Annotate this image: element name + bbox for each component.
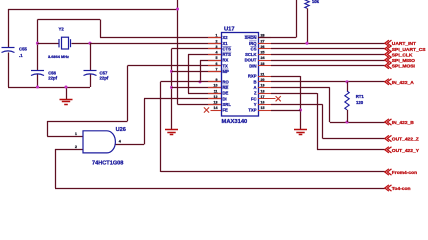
overbars on active-low pin names [223, 46, 232, 48]
wire RXP ground vertical [300, 76, 302, 129]
node MP junction [170, 70, 173, 73]
svg-text:To4-con: To4-con [392, 186, 411, 192]
wire DE row [188, 93, 221, 95]
svg-text:27: 27 [261, 39, 265, 43]
wire B row [271, 87, 330, 89]
wire CTS row [172, 48, 222, 50]
no-connect FC pin17 [276, 96, 281, 101]
node RE junction [170, 86, 173, 89]
svg-text:DIN: DIN [249, 63, 256, 68]
wire C57 bottom lead [90, 75, 92, 88]
svg-text:FE: FE [223, 108, 229, 113]
wire To4-con rail [55, 188, 385, 190]
connector SPI_MOSI [385, 63, 392, 69]
wire C55 bottom lead [8, 53, 10, 88]
node crystal left junction [36, 42, 39, 45]
wire CS to SPI_UART_CS [271, 48, 385, 50]
node ground stub junction [64, 85, 67, 88]
wire RX row [200, 60, 221, 62]
svg-text:TX: TX [223, 63, 229, 68]
wire RT1 top lead [347, 82, 349, 91]
wire B drop [329, 87, 331, 122]
connector SPI_UART_CS [385, 46, 392, 52]
svg-text:22pf: 22pf [100, 76, 109, 81]
wire crystal left lead [38, 43, 60, 45]
svg-text:B: B [253, 79, 256, 84]
connector IN_422_B [385, 119, 392, 125]
wire gate input2 [55, 149, 83, 151]
svg-text:3.6864 MHz: 3.6864 MHz [48, 54, 69, 59]
pin stub FE [211, 110, 222, 112]
wire A row to IN_422_A [271, 81, 385, 83]
svg-text:RE: RE [223, 85, 229, 90]
wire RE row [172, 87, 222, 89]
ground U17 right [294, 130, 307, 135]
wire RO row [161, 81, 222, 83]
svg-text:RX: RX [223, 58, 229, 63]
wire TX drop [127, 66, 129, 121]
pin stubs U17 left [208, 37, 221, 39]
crystal Y2 [59, 37, 71, 49]
resistor RT1 120 [345, 91, 349, 110]
wire Y row [271, 104, 323, 106]
AND gate U26 74HCT1G08 [83, 131, 115, 153]
wire Z drop [317, 93, 319, 150]
wire RO drop [160, 82, 162, 172]
wire IN_422_B row [330, 122, 385, 124]
connector IN_422_A [385, 79, 392, 85]
svg-text:OUT_422_Z: OUT_422_Z [392, 137, 419, 143]
wire crystal right lead [72, 43, 91, 45]
wire MP row [172, 71, 222, 73]
svg-text:C57: C57 [100, 70, 108, 75]
svg-text:U26: U26 [116, 127, 126, 133]
wire ground stub [66, 87, 68, 99]
wire oscillator ground rail [8, 87, 90, 89]
svg-text:SCLK: SCLK [245, 52, 256, 57]
wire C55 top lead [8, 9, 10, 48]
wire RTS-DE vertical [188, 54, 190, 93]
svg-text:MP: MP [223, 69, 229, 74]
wire SCLK to SPI_CLK [271, 54, 385, 56]
node RT1 bottom junction [345, 120, 348, 123]
connector UART_INT [385, 40, 392, 46]
wire DI row [144, 98, 221, 100]
svg-text:X1: X1 [223, 41, 229, 46]
wire RTS row [188, 54, 221, 56]
svg-text:SPI_UART_CS: SPI_UART_CS [392, 47, 426, 53]
svg-text:11: 11 [214, 89, 218, 93]
svg-text:IRQ: IRQ [249, 41, 257, 46]
connector OUT_422_Y [385, 147, 392, 153]
node RX-RO junction [198, 80, 201, 83]
wire gate output rise [144, 99, 146, 145]
svg-text:CTS: CTS [223, 46, 232, 51]
wire RXP row [271, 76, 301, 78]
wire crystal left node [37, 20, 39, 71]
connector OUT_422_Z [385, 135, 392, 141]
wire RT1 bottom lead [347, 110, 349, 122]
svg-text:FC: FC [251, 96, 257, 101]
wire OUT_422_Z row [323, 138, 385, 140]
resistor R 10k pullup [305, 0, 309, 8]
wire TXP row [271, 110, 301, 112]
svg-text:DE: DE [223, 91, 229, 96]
svg-text:IN_422_B: IN_422_B [392, 120, 414, 126]
ground oscillator [60, 100, 73, 105]
svg-text:24: 24 [261, 56, 265, 60]
wire SHDN-VCC vertical [296, 0, 298, 38]
svg-text:SRL: SRL [223, 102, 232, 107]
svg-text:RO: RO [223, 79, 230, 84]
wire IRQ to UART_INT [271, 43, 385, 45]
svg-text:OUT_422_Y: OUT_422_Y [392, 148, 420, 154]
wire 10k lead [307, 8, 309, 43]
svg-text:2: 2 [75, 145, 77, 149]
wire DIN to SPI_MOSI [271, 65, 385, 67]
wire VCC vertical [177, 0, 179, 104]
svg-text:UART_INT: UART_INT [392, 41, 416, 47]
svg-text:TXP: TXP [248, 108, 256, 113]
capacitor C55 [2, 48, 15, 53]
wire C56 bottom lead [37, 75, 39, 88]
wire gate input1 drop [47, 121, 49, 136]
wire DOUT to SPI_MISO [271, 60, 385, 62]
svg-text:120: 120 [356, 100, 364, 105]
svg-text:DOUT: DOUT [245, 58, 257, 63]
wire OUT_422_Y row [317, 149, 385, 151]
svg-text:.1: .1 [19, 53, 23, 58]
wire crystal right node [90, 43, 92, 70]
svg-text:U17: U17 [224, 27, 235, 33]
svg-text:C56: C56 [48, 70, 56, 75]
svg-text:21: 21 [261, 72, 265, 76]
node crystal right junction [88, 42, 91, 45]
wire Z row [271, 93, 317, 95]
wire VCC top rail [8, 9, 178, 11]
svg-text:DI: DI [223, 96, 227, 101]
pin stubs U17 right [258, 37, 271, 39]
wire Y drop [322, 104, 324, 138]
wire SRL row [178, 104, 222, 106]
svg-text:Y: Y [254, 102, 257, 107]
connector From4-con [385, 169, 392, 175]
node RT1 top junction [345, 80, 348, 83]
connector SPI_MISO [385, 57, 392, 63]
connector SPI_CLK [385, 51, 392, 57]
svg-text:SPI_MISO: SPI_MISO [392, 58, 415, 64]
pin stub FC [258, 98, 276, 100]
svg-text:14: 14 [214, 106, 218, 110]
svg-text:MAX3140: MAX3140 [222, 119, 248, 125]
node TXP-RXP junction [299, 108, 302, 111]
connector To4-con [385, 185, 392, 191]
ground U17 left [165, 130, 178, 135]
svg-text:RXP: RXP [248, 74, 257, 79]
svg-text:SPI_MOSI: SPI_MOSI [392, 64, 416, 70]
svg-text:5: 5 [216, 56, 218, 60]
svg-text:IN_422_A: IN_422_A [392, 80, 414, 86]
svg-text:10k: 10k [312, 0, 320, 4]
wire gate input1 [47, 136, 83, 138]
wire TX-gate bridge [47, 121, 127, 123]
svg-text:From4-con: From4-con [392, 170, 417, 176]
wire RX-RO vertical [200, 60, 202, 82]
node VCC rail junction [176, 7, 179, 10]
svg-text:RTS: RTS [223, 52, 232, 57]
wire ground vertical CTS/MP/RE [171, 49, 173, 130]
IC U17 MAX3140 body [222, 33, 259, 117]
node IRQ pullup junction [305, 42, 308, 45]
capacitor C57 [84, 71, 97, 76]
wire X2 row [100, 37, 221, 39]
svg-text:RT1: RT1 [356, 94, 365, 99]
wire gate input2 drop [55, 149, 57, 188]
svg-text:Z: Z [254, 91, 257, 96]
svg-text:C55: C55 [19, 47, 27, 52]
svg-text:7: 7 [216, 68, 218, 72]
svg-text:CS: CS [251, 46, 257, 51]
svg-text:1: 1 [75, 132, 77, 136]
svg-text:74HCT1G08: 74HCT1G08 [92, 161, 123, 167]
svg-text:15: 15 [261, 106, 265, 110]
svg-text:Y2: Y2 [59, 26, 65, 31]
wire gate output [115, 144, 144, 146]
wire From4-con rail [161, 171, 385, 173]
wire TX row [128, 65, 222, 67]
wire X2 bridge drop [100, 20, 102, 38]
svg-text:X2: X2 [223, 35, 229, 40]
svg-text:SHDN: SHDN [245, 35, 257, 40]
svg-text:2: 2 [216, 39, 218, 43]
svg-text:SPI_CLK: SPI_CLK [392, 52, 413, 58]
wire X2 bridge top [38, 19, 101, 21]
svg-text:A: A [253, 85, 256, 90]
wire X1 row [90, 43, 221, 45]
node C56 ground junction [36, 85, 39, 88]
capacitor C56 [31, 71, 44, 76]
no-connect FE pin14 [204, 107, 209, 112]
svg-text:18: 18 [261, 89, 265, 93]
wire SHDN row [258, 37, 296, 39]
svg-text:22pf: 22pf [48, 76, 57, 81]
